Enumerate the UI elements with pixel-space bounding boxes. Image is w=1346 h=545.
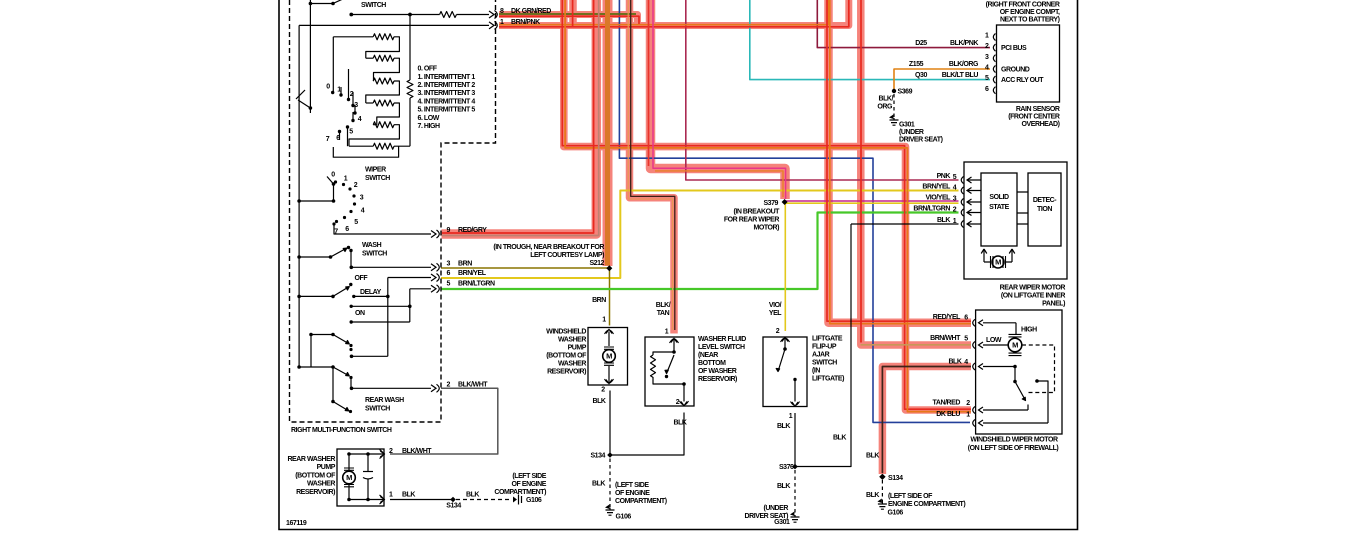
svg-text:G106: G106 [526, 497, 542, 504]
svg-text:PUMP: PUMP [317, 464, 336, 471]
svg-text:3: 3 [985, 54, 989, 61]
svg-text:BLK/WHT: BLK/WHT [458, 382, 488, 389]
svg-text:(UNDER: (UNDER [763, 505, 788, 512]
svg-text:G106: G106 [888, 509, 904, 516]
svg-text:WASHER FLUID: WASHER FLUID [698, 336, 746, 343]
svg-text:2: 2 [601, 387, 605, 394]
svg-text:BLK/: BLK/ [878, 96, 893, 103]
svg-text:1: 1 [602, 317, 606, 324]
svg-text:FOR REAR WIPER: FOR REAR WIPER [724, 217, 780, 224]
svg-text:BLK: BLK [937, 217, 950, 224]
svg-text:1. INTERMITTENT 1: 1. INTERMITTENT 1 [418, 74, 476, 81]
svg-text:7: 7 [326, 136, 330, 143]
svg-text:3: 3 [953, 196, 957, 203]
svg-text:ON: ON [355, 310, 365, 317]
svg-text:2: 2 [776, 328, 780, 335]
svg-text:(BOTTOM OF: (BOTTOM OF [546, 353, 587, 360]
svg-text:(ON LIFTGATE INNER: (ON LIFTGATE INNER [1001, 293, 1065, 300]
svg-text:3: 3 [447, 261, 451, 268]
svg-text:S134: S134 [590, 453, 605, 460]
svg-text:REAR WASHER: REAR WASHER [287, 456, 335, 463]
svg-text:PUMP: PUMP [568, 345, 587, 352]
svg-text:2: 2 [953, 207, 957, 214]
svg-text:RESERVOIR): RESERVOIR) [698, 376, 737, 383]
svg-text:NEXT TO BATTERY): NEXT TO BATTERY) [1000, 17, 1060, 24]
svg-text:2: 2 [447, 382, 451, 389]
svg-text:4: 4 [953, 185, 957, 192]
svg-text:BLK: BLK [592, 481, 605, 488]
svg-text:7: 7 [334, 229, 338, 236]
svg-text:9: 9 [447, 227, 451, 234]
svg-text:1: 1 [500, 19, 504, 26]
svg-text:G106: G106 [616, 514, 632, 521]
svg-text:(LEFT SIDE OF: (LEFT SIDE OF [888, 493, 933, 500]
svg-text:SWITCH: SWITCH [365, 406, 390, 413]
svg-text:6: 6 [336, 135, 340, 142]
svg-text:S369: S369 [898, 89, 913, 96]
svg-text:(LEFT SIDE: (LEFT SIDE [512, 473, 546, 480]
svg-text:LOW: LOW [986, 337, 1002, 344]
svg-text:1: 1 [389, 492, 393, 499]
svg-text:BRN/LTGRN: BRN/LTGRN [913, 206, 950, 213]
svg-text:Q30: Q30 [915, 72, 927, 79]
svg-text:OF WASHER: OF WASHER [698, 368, 737, 375]
svg-text:6: 6 [447, 270, 451, 277]
svg-text:WINDSHIELD: WINDSHIELD [546, 329, 586, 336]
svg-text:Z155: Z155 [909, 61, 924, 68]
svg-text:(RIGHT FRONT CORNER: (RIGHT FRONT CORNER [986, 2, 1060, 9]
svg-text:DK BLU: DK BLU [936, 411, 960, 418]
svg-text:GROUND: GROUND [1001, 67, 1030, 74]
svg-text:1: 1 [966, 412, 970, 419]
svg-text:BRN/LTGRN: BRN/LTGRN [458, 281, 495, 288]
svg-text:COMPARTMENT): COMPARTMENT) [615, 498, 667, 505]
svg-text:S212: S212 [589, 260, 604, 267]
svg-text:BRN: BRN [458, 261, 472, 268]
svg-text:M: M [995, 258, 1001, 267]
svg-text:1: 1 [337, 87, 341, 94]
svg-text:(NEAR: (NEAR [698, 352, 718, 359]
svg-text:BLK/WHT: BLK/WHT [402, 448, 432, 455]
svg-text:STATE: STATE [989, 204, 1009, 211]
svg-text:5. INTERMITTENT 5: 5. INTERMITTENT 5 [418, 107, 476, 114]
svg-text:(ON LEFT SIDE OF FIREWALL): (ON LEFT SIDE OF FIREWALL) [968, 445, 1059, 452]
svg-text:5: 5 [953, 174, 957, 181]
svg-text:G301: G301 [899, 122, 915, 129]
svg-text:BLK/ORG: BLK/ORG [949, 61, 979, 68]
svg-text:BLK: BLK [866, 453, 879, 460]
svg-text:MOTOR): MOTOR) [753, 225, 779, 232]
svg-text:BLK: BLK [777, 483, 790, 490]
svg-text:BRN/YEL: BRN/YEL [922, 184, 951, 191]
svg-text:BLK: BLK [866, 492, 879, 499]
svg-text:OF ENGINE: OF ENGINE [615, 490, 650, 497]
svg-text:2. INTERMITTENT 2: 2. INTERMITTENT 2 [418, 82, 476, 89]
svg-text:RESERVOIR): RESERVOIR) [296, 489, 335, 496]
svg-text:REAR WIPER MOTOR: REAR WIPER MOTOR [1000, 285, 1066, 292]
svg-text:RESERVOIR): RESERVOIR) [547, 369, 586, 376]
svg-text:OF ENGINE COMPT,: OF ENGINE COMPT, [1000, 9, 1060, 16]
svg-text:PNK: PNK [937, 173, 951, 180]
svg-text:BLK/: BLK/ [656, 302, 671, 309]
svg-text:M: M [1012, 341, 1018, 350]
svg-text:1: 1 [344, 176, 348, 183]
svg-text:REAR WASH: REAR WASH [365, 397, 404, 404]
svg-text:OVERHEAD): OVERHEAD) [1022, 121, 1060, 128]
svg-text:SWITCH: SWITCH [365, 175, 390, 182]
svg-text:167119: 167119 [286, 520, 307, 527]
svg-text:WASHER: WASHER [558, 337, 586, 344]
svg-text:WASHER: WASHER [307, 481, 335, 488]
svg-text:TAN/RED: TAN/RED [933, 400, 961, 407]
svg-text:RED/YEL: RED/YEL [933, 314, 961, 321]
svg-text:DELAY: DELAY [360, 289, 382, 296]
svg-text:(IN BREAKOUT: (IN BREAKOUT [733, 209, 780, 216]
svg-text:6: 6 [985, 86, 989, 93]
svg-text:D25: D25 [915, 40, 927, 47]
svg-text:BRN: BRN [592, 297, 606, 304]
svg-text:DRIVER SEAT): DRIVER SEAT) [899, 137, 943, 144]
svg-text:FLIP-UP: FLIP-UP [812, 344, 837, 351]
svg-text:BRN/WHT: BRN/WHT [930, 335, 961, 342]
svg-text:BRN/YEL: BRN/YEL [458, 270, 487, 277]
svg-text:BLK: BLK [777, 423, 790, 430]
svg-text:VIO/: VIO/ [769, 302, 782, 309]
svg-text:LEFT COURTESY LAMP): LEFT COURTESY LAMP) [530, 252, 604, 259]
svg-text:(FRONT CENTER: (FRONT CENTER [1008, 114, 1060, 121]
svg-text:BRN/PNK: BRN/PNK [511, 19, 540, 26]
svg-text:8: 8 [500, 8, 504, 15]
svg-text:0: 0 [331, 172, 335, 179]
svg-text:S134: S134 [888, 475, 903, 482]
svg-text:2: 2 [676, 399, 680, 406]
svg-text:M: M [606, 352, 612, 361]
svg-text:2: 2 [966, 400, 970, 407]
svg-text:6: 6 [345, 226, 349, 233]
svg-text:SOLID: SOLID [989, 194, 1009, 201]
svg-text:BLK: BLK [592, 398, 605, 405]
svg-text:3. INTERMITTENT 3: 3. INTERMITTENT 3 [418, 90, 476, 97]
svg-text:2: 2 [354, 182, 358, 189]
svg-text:COMPARTMENT): COMPARTMENT) [494, 489, 546, 496]
svg-text:BLK/LT BLU: BLK/LT BLU [942, 72, 979, 79]
svg-text:BLK: BLK [948, 359, 961, 366]
svg-text:(BOTTOM OF: (BOTTOM OF [295, 473, 336, 480]
svg-text:1: 1 [665, 329, 669, 336]
svg-text:7. HIGH: 7. HIGH [418, 123, 441, 130]
svg-text:S134: S134 [446, 503, 461, 510]
svg-text:2: 2 [985, 43, 989, 50]
svg-text:BLK: BLK [833, 435, 846, 442]
svg-text:TAN: TAN [657, 310, 670, 317]
svg-text:LEVEL SWITCH: LEVEL SWITCH [698, 344, 745, 351]
svg-text:SWITCH: SWITCH [812, 360, 837, 367]
svg-text:OFF: OFF [355, 275, 369, 282]
svg-text:3: 3 [360, 195, 364, 202]
svg-text:4: 4 [361, 208, 365, 215]
svg-text:SWITCH: SWITCH [361, 2, 386, 9]
svg-text:0. OFF: 0. OFF [418, 66, 438, 73]
svg-text:ACC RLY OUT: ACC RLY OUT [1001, 77, 1044, 84]
svg-text:M: M [346, 473, 352, 482]
svg-text:PCI BUS: PCI BUS [1001, 45, 1027, 52]
svg-text:S379: S379 [763, 200, 778, 207]
svg-text:LIFTGATE: LIFTGATE [812, 336, 843, 343]
svg-text:0: 0 [326, 84, 330, 91]
svg-text:WIPER: WIPER [365, 167, 386, 174]
svg-text:RED/GRY: RED/GRY [458, 227, 487, 234]
svg-text:(IN: (IN [812, 368, 820, 375]
svg-text:2: 2 [350, 91, 354, 98]
svg-text:(UNDER: (UNDER [899, 129, 924, 136]
svg-text:YEL: YEL [769, 310, 782, 317]
svg-text:WINDSHIELD WIPER MOTOR: WINDSHIELD WIPER MOTOR [970, 437, 1058, 444]
svg-text:4: 4 [985, 65, 989, 72]
svg-text:HIGH: HIGH [1021, 327, 1037, 334]
svg-text:BLK: BLK [466, 492, 479, 499]
svg-text:DETEC-: DETEC- [1033, 197, 1057, 204]
svg-text:BLK/PNK: BLK/PNK [950, 40, 978, 47]
svg-text:S376: S376 [779, 464, 794, 471]
svg-text:1: 1 [953, 218, 957, 225]
svg-text:RIGHT MULTI-FUNCTION SWITCH: RIGHT MULTI-FUNCTION SWITCH [291, 427, 392, 434]
svg-text:5: 5 [985, 75, 989, 82]
svg-text:BLK: BLK [402, 492, 415, 499]
svg-text:PANEL): PANEL) [1042, 301, 1065, 308]
svg-text:LIFTGATE): LIFTGATE) [812, 376, 844, 383]
svg-text:ENGINE COMPARTMENT): ENGINE COMPARTMENT) [888, 501, 965, 508]
svg-text:6: 6 [964, 315, 968, 322]
svg-text:5: 5 [447, 281, 451, 288]
svg-text:AJAR: AJAR [812, 352, 830, 359]
svg-text:4. INTERMITTENT 4: 4. INTERMITTENT 4 [418, 98, 476, 105]
svg-text:BLK: BLK [673, 420, 686, 427]
svg-text:WASHER: WASHER [558, 361, 586, 368]
svg-text:1: 1 [789, 413, 793, 420]
svg-text:SWITCH: SWITCH [362, 251, 387, 258]
svg-text:(LEFT SIDE: (LEFT SIDE [615, 482, 649, 489]
svg-text:BOTTOM: BOTTOM [698, 360, 726, 367]
svg-text:(IN TROUGH, NEAR BREAKOUT FOR: (IN TROUGH, NEAR BREAKOUT FOR [493, 244, 604, 251]
svg-text:WASH: WASH [362, 242, 382, 249]
svg-text:RAIN SENSOR: RAIN SENSOR [1016, 106, 1060, 113]
svg-text:OF ENGINE: OF ENGINE [512, 481, 547, 488]
svg-text:4: 4 [358, 116, 362, 123]
svg-text:G301: G301 [774, 519, 790, 526]
svg-text:ORG: ORG [877, 104, 893, 111]
svg-text:VIO/YEL: VIO/YEL [926, 195, 952, 202]
svg-text:1: 1 [985, 33, 989, 40]
svg-text:5: 5 [349, 129, 353, 136]
svg-text:6. LOW: 6. LOW [418, 115, 440, 122]
svg-text:3: 3 [354, 102, 358, 109]
svg-text:DK GRN/RED: DK GRN/RED [511, 8, 551, 15]
svg-text:5: 5 [354, 219, 358, 226]
svg-text:TION: TION [1037, 206, 1052, 213]
svg-text:2: 2 [389, 448, 393, 455]
svg-text:5: 5 [964, 336, 968, 343]
svg-text:4: 4 [964, 359, 968, 366]
